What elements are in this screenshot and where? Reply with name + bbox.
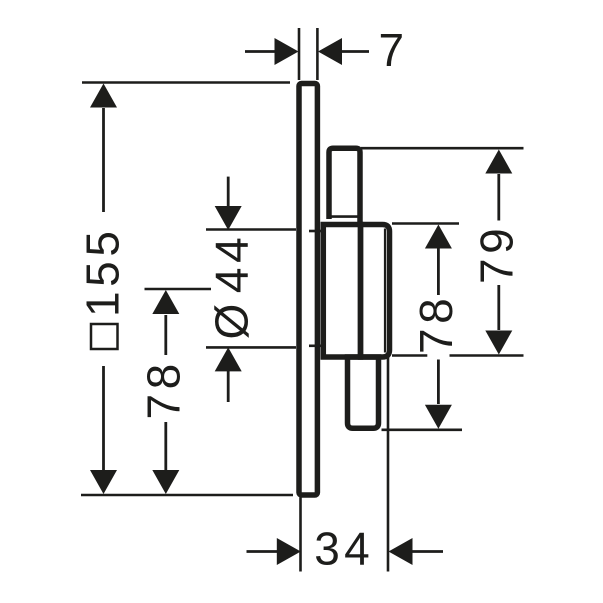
dim 78 left: center extension line [145,288,212,291]
dim 44: lower leader with up arrow [227,371,230,402]
dim 78 left: up arrow [152,290,179,314]
top valve stub block [329,148,360,225]
dim 79: vertical dimension line (gap for text) [497,174,500,221]
dim 78 right: up arrow [425,225,452,249]
dim 34: right extension line [387,354,390,572]
dim 155: top extension line [82,81,290,84]
svg-text:7: 7 [379,24,409,76]
svg-text:Ø44: Ø44 [206,233,258,340]
svg-text:34: 34 [314,523,374,575]
dim 78 right: bottom extension line [382,428,463,431]
dim 34: right leader with arrow [407,550,443,553]
dim 155: up arrow [90,84,117,108]
svg-text:79: 79 [471,224,523,284]
dim 78 right: down arrow [425,405,452,429]
dim 7: extension lines above plate [298,28,301,80]
handle sleeve body [323,225,360,358]
dim 44: upper leader with down arrow [227,177,230,206]
dim 78 right: top extension line [392,222,459,225]
dim 79: up arrow [485,150,512,174]
dim 155: square symbol of label [91,324,118,349]
wall plate (escutcheon, section) [299,84,317,496]
svg-text:78: 78 [410,294,462,354]
dim 7: right leader with arrow [336,50,369,53]
dim 155: vertical dimension line (gap for text) [102,108,105,212]
dim 78 right: vertical dimension line (gap for text) [437,248,440,295]
dim 78 left: vertical dimension line (gap for text) [164,315,167,355]
svg-text:155: 155 [77,226,129,317]
dim 155: down arrow [90,470,117,494]
dim 79: down arrow [485,331,512,355]
dim 44: lower extension line [206,346,296,349]
dim 78 left: down arrow [152,470,179,494]
dim 44: upper extension line [206,228,296,231]
dim 7: left leader with arrow [245,50,281,53]
dim 79: bottom extension line [392,354,427,357]
bottom valve stub block (rounded bottom corners) [348,357,379,428]
dim 34: left extension line [299,498,302,572]
dim 155: bottom extension line [81,494,293,497]
dim 34: left leader with arrow [247,550,284,553]
top block bottom edge (thin) [327,215,363,218]
svg-text:78: 78 [138,359,190,419]
handle front chamfer line (thin) [384,229,386,353]
handle front body (rounded front corners) [361,225,390,358]
dim 79: top extension line [361,147,524,150]
